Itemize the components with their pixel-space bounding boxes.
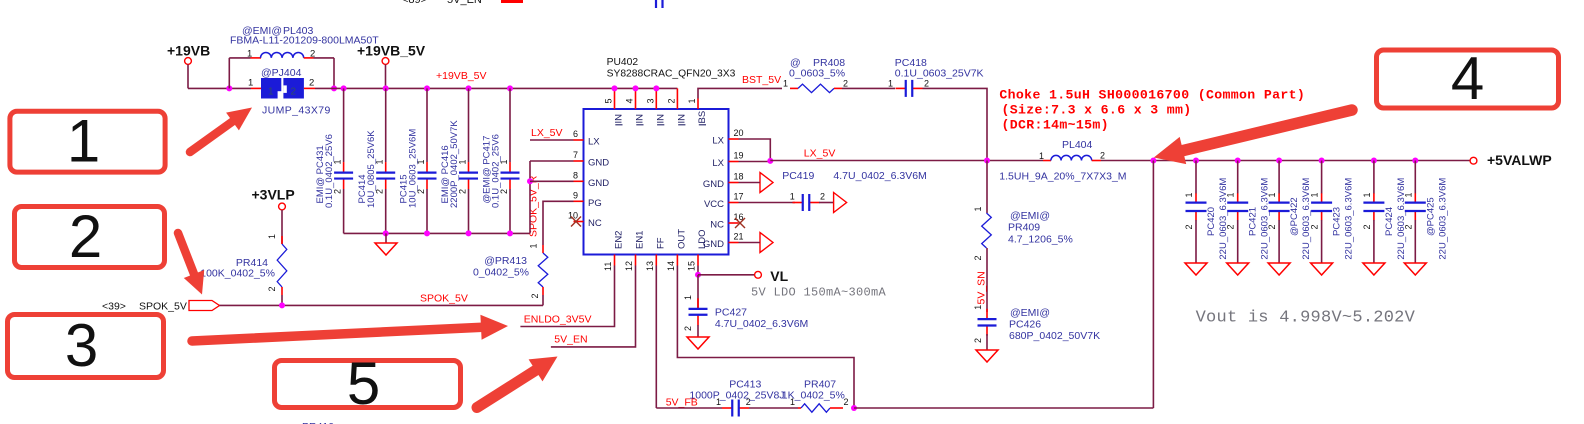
svg-text:@PJ404: @PJ404 [261, 67, 302, 79]
wire PR407 stub2 [830, 407, 843, 409]
svg-text:19: 19 [734, 151, 744, 161]
svg-text:6: 6 [573, 129, 578, 139]
pin 11 stub (bottom) [614, 255, 616, 266]
svg-text:1: 1 [1403, 192, 1413, 197]
capacitor @PC422 [1269, 193, 1290, 220]
svg-text:11: 11 [603, 262, 613, 271]
svg-text:5V_EN: 5V_EN [447, 0, 482, 6]
ground (PC426) [976, 350, 998, 362]
svg-text:1: 1 [67, 108, 100, 175]
node junction rail IN pin [612, 85, 618, 91]
wire pin13 drop [655, 266, 657, 409]
wire +19VB_5V rail [315, 87, 677, 89]
wire PC418 to LX riser [923, 88, 988, 160]
svg-text:GND: GND [703, 179, 724, 190]
node junction jumper-right [331, 85, 337, 91]
wire inductor stub2 [304, 57, 314, 59]
capacitor PC423 [1311, 193, 1332, 220]
pin 9 stub (left) [574, 200, 584, 202]
pin 12 stub (bottom) [635, 255, 637, 266]
jumper pad2 stub [304, 87, 315, 89]
port arrow pin18 [760, 173, 773, 193]
annotation arrow 1 [190, 108, 252, 153]
pin 19 stub (right) [729, 161, 739, 163]
node junction pins19-20 [767, 158, 773, 164]
pin name IN underline [657, 124, 664, 126]
wire +19VB down [187, 65, 189, 89]
resistor PR407 [801, 404, 830, 412]
wire feedback riser [1152, 161, 1154, 409]
wire branch PC431 upper [343, 88, 345, 162]
pin 13 stub (bottom) [655, 255, 657, 266]
wire +19VB_5V terminal drop [385, 65, 387, 89]
svg-text:2: 2 [924, 78, 929, 88]
svg-text:2: 2 [1362, 224, 1372, 229]
annotation arrow 5 [477, 357, 558, 408]
label PR408 refdes [790, 57, 845, 69]
ground (@PC425) [1404, 263, 1426, 275]
svg-text:9: 9 [573, 190, 578, 200]
wire PR413 down [542, 295, 544, 305]
wire +19VB to jumper [188, 87, 251, 89]
svg-text:VL: VL [770, 268, 788, 284]
wire inductor top right [314, 57, 335, 59]
svg-text:22U_0603_6.3V6M: 22U_0603_6.3V6M [1344, 178, 1355, 260]
svg-text:OUT: OUT [677, 229, 688, 249]
wire pin14 route [677, 266, 854, 409]
svg-text:2200P_0402_50V7K: 2200P_0402_50V7K [449, 120, 460, 208]
svg-text:1: 1 [1184, 192, 1194, 197]
svg-text:10U_0805_25V6K: 10U_0805_25V6K [366, 130, 377, 208]
wire gnd bus riser [529, 161, 531, 233]
wire PR413 stub2 [542, 287, 544, 295]
svg-text:100K_0402_5%: 100K_0402_5% [200, 268, 275, 280]
svg-text:LX_5V: LX_5V [804, 147, 836, 159]
svg-text:1: 1 [1226, 192, 1236, 197]
svg-text:@EMI@: @EMI@ [1010, 307, 1050, 319]
svg-text:(Size:7.3 x 6.6 x 3 mm): (Size:7.3 x 6.6 x 3 mm) [1002, 103, 1192, 118]
svg-text:+5VALWP: +5VALWP [1487, 152, 1552, 168]
svg-text:SPOK_5V: SPOK_5V [139, 301, 187, 313]
svg-text:SY8288CRAC_QFN20_3X3: SY8288CRAC_QFN20_3X3 [607, 68, 736, 79]
wire PR409 upper [986, 161, 988, 214]
pin 4 stub (top) [635, 88, 637, 109]
pin 17 stub (right) [729, 202, 739, 204]
power terminal +19VB [167, 43, 210, 65]
wire branch PC417 lower [509, 189, 511, 233]
wire branch @PC422 lower [1278, 220, 1280, 263]
svg-text:2: 2 [843, 78, 848, 88]
capacitor PC431 [334, 162, 353, 189]
jumper PJ404 pad1 [261, 78, 282, 99]
op-amp U PU402 body [584, 109, 729, 255]
capacitor PC413 [722, 400, 749, 417]
capacitor PC415 [418, 162, 437, 189]
svg-text:2: 2 [267, 286, 277, 291]
node junction pin8 [527, 178, 533, 184]
svg-text:22U_0603_6.3V6M: 22U_0603_6.3V6M [1260, 178, 1271, 260]
svg-text:1: 1 [267, 234, 277, 239]
wire branch PC431 lower [343, 189, 345, 233]
node junction rail PC417 [507, 85, 513, 91]
capacitor PC414 [376, 162, 395, 189]
wire pin8 link [530, 180, 574, 182]
capacitor PC420 [1186, 193, 1207, 220]
ground (PC420) [1185, 263, 1207, 275]
svg-text:20: 20 [734, 128, 744, 138]
pin 21 stub (right) [729, 242, 739, 244]
jumper PJ404 pad2 [283, 78, 304, 99]
wire gnd stub [385, 233, 387, 243]
wire inductor left riser [228, 58, 230, 89]
pin 3 stub (top) [655, 88, 657, 109]
svg-text:IN: IN [656, 114, 667, 124]
wire pin7 link [530, 160, 574, 162]
wire branch PC423 lower [1321, 220, 1323, 263]
svg-text:PL404: PL404 [1062, 139, 1093, 151]
wire branch PC420 upper [1195, 161, 1197, 194]
svg-text:PC421: PC421 [1248, 207, 1259, 236]
svg-text:3: 3 [645, 98, 655, 103]
wire 5V_EN [551, 266, 636, 347]
svg-text:4.7U_0402_6.3V6M: 4.7U_0402_6.3V6M [715, 318, 808, 330]
svg-text:LX_5V: LX_5V [531, 127, 563, 139]
pin 18 stub (right) [729, 182, 739, 184]
svg-text:22U_0603_6.3V6M: 22U_0603_6.3V6M [1437, 178, 1448, 260]
annotation arrow 3 [192, 315, 508, 341]
svg-text:13: 13 [645, 261, 655, 271]
wire branch PC417 upper [509, 88, 511, 162]
wire PC426 lower [986, 334, 988, 350]
wire 5V_FB mid [749, 407, 798, 409]
wire branch PC415 lower [426, 189, 428, 233]
resistor PR409 [982, 213, 992, 248]
svg-text:17: 17 [734, 192, 744, 202]
svg-text:VCC: VCC [704, 199, 724, 210]
svg-text:0.1U_0603_25V7K: 0.1U_0603_25V7K [895, 67, 984, 79]
svg-text:BST_5V: BST_5V [742, 74, 781, 86]
svg-text:GND: GND [588, 178, 609, 189]
svg-text:1: 1 [1310, 192, 1320, 197]
svg-text:LX: LX [712, 136, 724, 147]
svg-text:IN: IN [635, 114, 646, 124]
annotation box 4 [1377, 45, 1559, 112]
wire PR414 stub2 [281, 287, 283, 295]
pin 14 stub (bottom) [676, 255, 678, 266]
pin 5 stub (top) [614, 88, 616, 109]
pin 2 stub (top) [676, 88, 678, 109]
wire PR413 stub1 [542, 245, 544, 253]
wire inductor top left [229, 57, 250, 59]
node junction gnd bus [507, 230, 513, 236]
node junction gnd bus [424, 230, 430, 236]
svg-text:BS: BS [697, 111, 708, 124]
node junction rail IN pin [653, 85, 659, 91]
svg-text:LDO: LDO [697, 229, 708, 249]
svg-text:4.7U_0402_6.3V6M: 4.7U_0402_6.3V6M [833, 170, 926, 182]
svg-text:7: 7 [573, 150, 578, 160]
wire cap ground bus [344, 232, 530, 234]
svg-text:5V_SN: 5V_SN [976, 271, 988, 304]
wire pin6 LX_5V [530, 139, 574, 141]
wire pin15 drop [697, 266, 699, 275]
svg-text:18: 18 [734, 172, 744, 182]
svg-text:PC423: PC423 [1332, 207, 1343, 236]
wire 5V_SN [986, 248, 988, 312]
wire 5V_FB bus left [656, 407, 722, 409]
svg-text:2: 2 [291, 87, 297, 98]
annotation arrow 2 [178, 233, 204, 295]
svg-text:1: 1 [888, 78, 893, 88]
svg-text:1: 1 [1362, 192, 1372, 197]
svg-text:@EMI@: @EMI@ [1010, 210, 1050, 222]
svg-text:+19VB_5V: +19VB_5V [357, 43, 426, 59]
svg-text:5: 5 [347, 350, 380, 417]
wire pin20 link [739, 139, 771, 162]
pin name BS underline [699, 124, 706, 126]
svg-text:ENLDO_3V5V: ENLDO_3V5V [524, 314, 592, 326]
node junction rail PC420 [1193, 158, 1199, 164]
wire pin18 link [739, 182, 761, 184]
svg-text:0_0402_5%: 0_0402_5% [473, 267, 529, 279]
ground (cap bus) [375, 243, 397, 255]
wire PR408 stub2 [834, 87, 842, 89]
svg-text:2: 2 [1100, 150, 1105, 160]
node junction feedback [851, 405, 857, 411]
off-page connector SPOK_5V [102, 301, 220, 313]
svg-text:1: 1 [1039, 151, 1044, 161]
clipped red symbol (top edge) [501, 0, 523, 3]
ground (PC424) [1363, 263, 1385, 275]
svg-text:2: 2 [683, 326, 693, 331]
wire branch PC416 upper [468, 88, 470, 162]
wire +5VALWP rail [1101, 160, 1470, 162]
pin 16 no-connect X [735, 218, 745, 228]
annotation box 3 [8, 312, 164, 379]
wire PL404 stub1 [1043, 160, 1051, 162]
svg-text:PG: PG [588, 198, 602, 209]
wire SPOK_5V bus [220, 304, 544, 306]
svg-text:Choke 1.5uH SH000016700 (Commo: Choke 1.5uH SH000016700 (Common Part) [999, 87, 1305, 102]
svg-text:2: 2 [973, 255, 983, 260]
wire branch @PC425 upper [1414, 161, 1416, 194]
resistor PR414 [277, 244, 287, 287]
svg-text:2: 2 [530, 293, 540, 298]
wire PR414 down [281, 295, 283, 305]
svg-text:1: 1 [783, 78, 788, 88]
svg-text:1: 1 [790, 192, 795, 202]
wire PG corner [543, 201, 574, 245]
wire inductor right riser [333, 58, 335, 89]
wire branch @PC425 lower [1414, 220, 1416, 263]
svg-text:1K_0402_5%: 1K_0402_5% [782, 390, 845, 402]
label @EMI@ PL403 [242, 25, 314, 37]
svg-text:IN: IN [677, 114, 688, 124]
svg-text:3: 3 [65, 312, 98, 379]
svg-text:0.1U_0402_25V6: 0.1U_0402_25V6 [324, 134, 335, 208]
capacitor PC417 [501, 162, 520, 189]
wire PC419 out [819, 202, 834, 204]
pin name IN underline [636, 124, 643, 126]
node junction pin15 [695, 272, 701, 278]
wire PC427 upper [697, 275, 699, 308]
node junction rail PC414 [383, 85, 389, 91]
pin name IN underline [678, 124, 685, 126]
clipped capacitor (top edge) [656, 0, 663, 8]
svg-text:PC426: PC426 [1009, 319, 1041, 331]
port arrow PC419 [834, 193, 847, 213]
node junction rail PC423 [1319, 158, 1325, 164]
power terminal VL [755, 268, 789, 284]
svg-text:8: 8 [573, 170, 578, 180]
svg-text:PU402: PU402 [607, 57, 639, 68]
svg-text:2: 2 [666, 98, 676, 103]
wire branch PC424 upper [1373, 161, 1375, 194]
pin 10 no-connect X [571, 217, 581, 227]
svg-text:+19VB: +19VB [167, 43, 210, 59]
pin 15 stub (bottom) [697, 255, 699, 266]
pin 1 stub (top) [697, 99, 699, 110]
capacitor PC427 [689, 298, 708, 325]
ground (PC427) [687, 337, 709, 349]
svg-text:1: 1 [973, 305, 983, 310]
node junction rail PC415 [424, 85, 430, 91]
node junction rail @PC425 [1412, 158, 1418, 164]
wire branch PC423 upper [1321, 161, 1323, 194]
wire branch PC414 lower [385, 189, 387, 233]
wire PL404 stub2 [1092, 160, 1101, 162]
wire PC427 lower [697, 325, 699, 337]
pin name IN underline [615, 124, 622, 126]
svg-text:12: 12 [624, 261, 634, 271]
svg-text:1: 1 [529, 243, 539, 248]
svg-text:1: 1 [973, 206, 983, 211]
svg-text:1: 1 [687, 98, 697, 103]
svg-text:14: 14 [666, 261, 676, 271]
svg-text:PC420: PC420 [1206, 207, 1217, 236]
wire branch PC416 lower [468, 189, 470, 233]
wire PR407 stub1 [798, 407, 801, 409]
svg-text:EN2: EN2 [614, 231, 625, 249]
resistor PR413 [538, 253, 548, 287]
svg-text:2: 2 [309, 78, 314, 89]
svg-text:+3VLP: +3VLP [252, 187, 295, 203]
svg-text:5V_EN: 5V_EN [554, 334, 587, 346]
pin 16 stub (right) [729, 222, 739, 224]
svg-text:JUMP_43X79: JUMP_43X79 [262, 105, 331, 117]
svg-text:680P_0402_50V7K: 680P_0402_50V7K [1009, 330, 1100, 342]
node junction BST riser [984, 158, 990, 164]
svg-text:4: 4 [1451, 45, 1484, 112]
node junction rail PC431 [341, 85, 347, 91]
ground (PC421) [1227, 263, 1249, 275]
power terminal +3VLP [252, 187, 295, 210]
power terminal +19VB_5V [357, 43, 426, 65]
svg-text:22U_0603_6.3V6M: 22U_0603_6.3V6M [1396, 178, 1407, 260]
wire PR408 stub1 [790, 87, 798, 89]
clipped sheet text <89> 5V_EN (top edge) [402, 0, 482, 6]
svg-text:@PR413: @PR413 [484, 255, 527, 267]
svg-text:2: 2 [1403, 224, 1413, 229]
pin 20 stub (right) [729, 138, 739, 140]
wire PR408-PC418 [842, 87, 895, 89]
inductor PL404 [1051, 155, 1092, 160]
wire 5V_FB bus right [854, 407, 1153, 409]
svg-text:IN: IN [614, 114, 625, 124]
pin 8 stub (left) [574, 180, 584, 182]
svg-text:1: 1 [268, 87, 274, 98]
svg-text:PR409: PR409 [1008, 222, 1040, 234]
node junction rail @PC422 [1276, 158, 1282, 164]
svg-text:5: 5 [604, 98, 614, 103]
capacitor PC419 [793, 194, 820, 211]
svg-text:NC: NC [588, 218, 602, 229]
wire branch PC421 lower [1237, 220, 1239, 263]
svg-text:1: 1 [247, 49, 252, 60]
svg-text:1.5UH_9A_20%_7X7X3_M: 1.5UH_9A_20%_7X7X3_M [999, 171, 1126, 183]
svg-text:PC419: PC419 [782, 170, 814, 182]
wire branch PC424 lower [1373, 220, 1375, 263]
svg-text:4.7_1206_5%: 4.7_1206_5% [1008, 234, 1073, 246]
svg-text:<39>: <39> [102, 301, 126, 313]
node junction gnd bus [383, 230, 389, 236]
svg-text:21: 21 [734, 232, 744, 242]
svg-text:4: 4 [625, 98, 635, 103]
node junction inductor-left [226, 85, 232, 91]
ground (PC423) [1311, 263, 1333, 275]
svg-text:1: 1 [1267, 192, 1277, 197]
svg-text:2: 2 [1267, 224, 1277, 229]
capacitor PC421 [1227, 193, 1248, 220]
annotation box 1 [10, 108, 165, 175]
svg-text:LX: LX [588, 137, 600, 148]
svg-text:LX: LX [712, 158, 724, 169]
svg-text:@PC425: @PC425 [1425, 197, 1436, 236]
capacitor PC424 [1363, 193, 1384, 220]
wire branch PC421 upper [1237, 161, 1239, 194]
node junction rail PC416 [466, 85, 472, 91]
annotation arrow 4 [1154, 110, 1352, 164]
svg-text:SPOK_5V: SPOK_5V [420, 293, 468, 305]
annotation box 2 [15, 203, 165, 270]
node junction rail PC421 [1235, 158, 1241, 164]
node junction rail PC424 [1371, 158, 1377, 164]
svg-text:2: 2 [69, 203, 102, 270]
svg-text:2: 2 [1310, 224, 1320, 229]
capacitor PC416 [459, 162, 478, 189]
resistor PR408 [798, 84, 834, 92]
svg-text:@PC422: @PC422 [1289, 197, 1300, 236]
wire VL link [698, 274, 755, 276]
annotation box 5 [275, 350, 461, 417]
svg-text:PC424: PC424 [1384, 207, 1395, 236]
svg-text:1: 1 [683, 295, 693, 300]
wire LX_5V rail [739, 161, 771, 163]
pin 10 stub (left) [574, 221, 584, 223]
pin 7 stub (left) [574, 160, 584, 162]
wire pin17 link [739, 202, 796, 204]
svg-text:2: 2 [973, 338, 983, 343]
wire ENLDO_3V5V [520, 266, 614, 327]
svg-text:1: 1 [248, 78, 253, 89]
svg-text:22U_0603_6.3V6M: 22U_0603_6.3V6M [1218, 178, 1229, 260]
svg-text:0.1U_0402_25V6: 0.1U_0402_25V6 [491, 134, 502, 208]
label PR409 refdes [1008, 210, 1073, 246]
node junction rail IN pin [633, 85, 639, 91]
wire PR414 stub1 [281, 236, 283, 244]
node junction SPOK-PR414 [279, 302, 285, 308]
wire inductor stub1 [251, 57, 262, 59]
